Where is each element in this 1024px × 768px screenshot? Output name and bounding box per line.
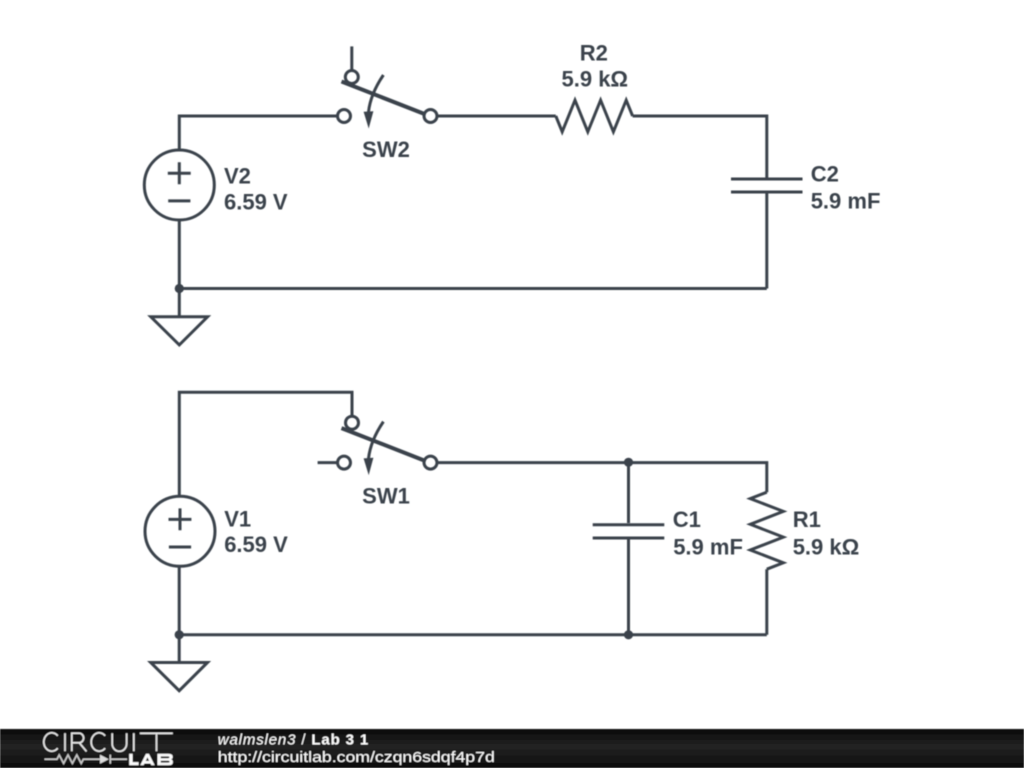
svg-text:5.9 mF: 5.9 mF	[811, 189, 881, 214]
svg-text:6.59 V: 6.59 V	[224, 532, 288, 557]
svg-text:walmslen3 / Lab 3 1: walmslen3 / Lab 3 1	[218, 732, 369, 749]
svg-text:5.9 mF: 5.9 mF	[673, 535, 743, 560]
svg-text:http://circuitlab.com/czqn6sdq: http://circuitlab.com/czqn6sdqf4p7d	[218, 749, 495, 766]
svg-text:R2: R2	[580, 40, 608, 65]
svg-text:R1: R1	[793, 507, 821, 532]
svg-text:C2: C2	[811, 161, 839, 186]
svg-text:SW1: SW1	[362, 483, 410, 508]
svg-text:5.9 kΩ: 5.9 kΩ	[793, 535, 860, 560]
svg-text:SW2: SW2	[362, 137, 410, 162]
svg-text:5.9 kΩ: 5.9 kΩ	[562, 66, 629, 91]
svg-text:V1: V1	[224, 506, 251, 531]
svg-text:6.59 V: 6.59 V	[224, 189, 288, 214]
svg-text:V2: V2	[224, 164, 251, 189]
svg-text:C1: C1	[673, 507, 701, 532]
